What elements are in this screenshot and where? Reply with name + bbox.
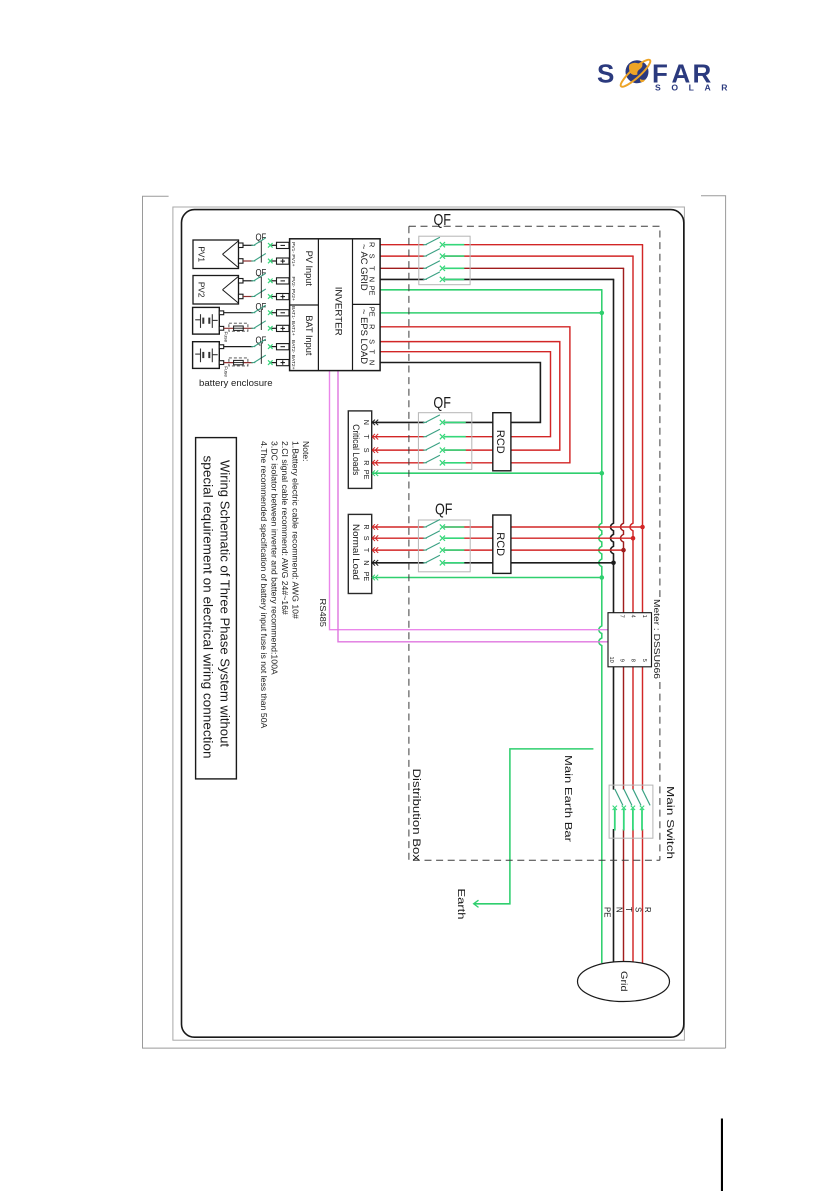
fuse F2 bbox=[234, 360, 244, 364]
wire main earth bar branch bbox=[475, 749, 594, 904]
PV panel PV2 bbox=[193, 276, 239, 305]
svg-text:8: 8 bbox=[630, 659, 636, 662]
load box Critical Loads bbox=[348, 411, 371, 489]
wire AC GRID S phase bbox=[380, 255, 424, 257]
svg-text:PV2- PV2+: PV2- PV2+ bbox=[290, 277, 296, 301]
normal load arrows bbox=[372, 524, 375, 530]
svg-text:1.Battery electric cable recom: 1.Battery electric cable recommend: AWG … bbox=[291, 441, 301, 619]
wire normal load PE bbox=[372, 577, 602, 579]
svg-text:5: 5 bbox=[641, 659, 647, 662]
svg-text:RCD: RCD bbox=[494, 532, 506, 556]
svg-text:PV1: PV1 bbox=[197, 246, 207, 262]
svg-text:Earth: Earth bbox=[455, 889, 467, 920]
battery B1 terminal stubs bbox=[219, 311, 223, 315]
svg-text:PE: PE bbox=[368, 286, 377, 296]
wire critical loads R bbox=[372, 462, 425, 464]
main switch box bbox=[609, 785, 653, 838]
battery B2 terminal stubs bbox=[219, 345, 223, 349]
node normal PE junction bbox=[600, 575, 605, 580]
svg-text:BAT1- BAT1+: BAT1- BAT1+ bbox=[290, 306, 296, 336]
wire PV1 negative bbox=[243, 260, 253, 262]
svg-text:Meter : DSSU666: Meter : DSSU666 bbox=[652, 599, 661, 680]
svg-text:QF: QF bbox=[435, 501, 453, 518]
svg-text:R: R bbox=[368, 324, 377, 329]
wire normal load T bbox=[372, 549, 425, 551]
wire PV2 negative bbox=[243, 296, 253, 298]
svg-text:S: S bbox=[633, 907, 642, 912]
node EPS PE junction bbox=[600, 311, 605, 316]
earth arrow bbox=[474, 900, 479, 907]
svg-text:PE: PE bbox=[362, 572, 371, 582]
PV2 terminal stubs bbox=[239, 279, 244, 284]
svg-text:Critical Loads: Critical Loads bbox=[351, 424, 361, 475]
distribution box dashed enclosure bbox=[409, 226, 660, 597]
battery B1 bbox=[193, 307, 220, 334]
svg-text:N: N bbox=[362, 560, 371, 565]
wire battery B1 negative bbox=[224, 327, 253, 329]
wire battery B2 positive bbox=[224, 346, 253, 348]
main switch pole N bbox=[615, 789, 623, 805]
fuse F2 enclosure bbox=[229, 358, 248, 366]
svg-text:PE: PE bbox=[362, 470, 371, 480]
inverter PV1 minus terminal bbox=[277, 242, 290, 248]
svg-text:Main Switch: Main Switch bbox=[664, 786, 676, 859]
svg-text:Fuse: Fuse bbox=[223, 332, 229, 343]
svg-text:S: S bbox=[368, 339, 377, 344]
svg-text:N: N bbox=[614, 907, 623, 913]
battery B2 bbox=[193, 342, 220, 369]
svg-text:SOLAR: SOLAR bbox=[655, 83, 738, 93]
wire AC GRID PE earth bus bbox=[380, 289, 602, 291]
svg-text:special requirement on electri: special requirement on electrical wiring… bbox=[201, 456, 215, 759]
wire normal load R bbox=[372, 526, 425, 528]
caption box bbox=[196, 438, 237, 779]
wire AC GRID R phase bbox=[380, 244, 424, 246]
svg-text:Grid: Grid bbox=[618, 971, 629, 992]
inner gray frame bbox=[173, 207, 685, 1040]
svg-text:PV Input: PV Input bbox=[304, 251, 314, 287]
wire battery B2 negative bbox=[224, 362, 253, 364]
wire PV2 positive bbox=[243, 280, 253, 282]
svg-text:9: 9 bbox=[618, 659, 624, 662]
svg-text:R: R bbox=[643, 907, 652, 913]
node normal S junction bbox=[631, 536, 636, 541]
svg-text:2.CI signal cable recommend: A: 2.CI signal cable recommend: AWG 24#~16# bbox=[280, 441, 290, 615]
critical loads arrows bbox=[372, 420, 375, 426]
node normal R junction bbox=[640, 525, 645, 530]
main switch pole R bbox=[642, 789, 650, 805]
svg-text:N: N bbox=[368, 277, 377, 282]
node critical PE junction bbox=[600, 471, 605, 476]
svg-text:R: R bbox=[362, 524, 371, 529]
wire RS485 A line bbox=[330, 371, 609, 630]
svg-text:T: T bbox=[362, 435, 371, 440]
wire EPS LOAD S phase bbox=[380, 342, 560, 451]
inverter PV2 minus terminal bbox=[277, 278, 290, 284]
wire critical loads S bbox=[372, 449, 425, 451]
svg-text:battery enclosure: battery enclosure bbox=[199, 378, 273, 389]
PV1 terminal stubs bbox=[239, 243, 244, 248]
svg-text:QF: QF bbox=[433, 395, 451, 412]
main switch pole S bbox=[633, 789, 641, 805]
svg-text:T: T bbox=[624, 907, 633, 912]
wire EPS LOAD R phase bbox=[380, 327, 570, 463]
wire normal load S bbox=[372, 537, 425, 539]
svg-text:RS485: RS485 bbox=[318, 599, 327, 628]
rounded border of schematic bbox=[182, 210, 684, 1038]
RCD normal load bbox=[493, 515, 511, 573]
wire EPS LOAD N neutral bbox=[380, 363, 540, 423]
svg-text:INVERTER: INVERTER bbox=[333, 287, 343, 336]
svg-text:N: N bbox=[362, 420, 371, 425]
svg-text:QF: QF bbox=[434, 212, 452, 229]
wire normal load N bbox=[372, 562, 425, 564]
svg-text:Wiring Schematic of Three Phas: Wiring Schematic of Three Phase System w… bbox=[218, 460, 232, 748]
wire AC GRID T phase bbox=[380, 267, 424, 269]
svg-text:R: R bbox=[362, 460, 371, 465]
wire RS485 B line bbox=[338, 371, 608, 642]
svg-text:RCD: RCD bbox=[494, 430, 506, 454]
PV panel PV1 bbox=[193, 240, 239, 269]
svg-text:BAT2- BAT2+: BAT2- BAT2+ bbox=[290, 340, 296, 370]
main switch pole T bbox=[624, 789, 632, 805]
inverter BAT2 plus terminal bbox=[277, 360, 290, 366]
fuse F1 enclosure bbox=[229, 323, 248, 331]
svg-text:S: S bbox=[362, 536, 371, 541]
svg-text:PV2: PV2 bbox=[197, 282, 207, 298]
svg-text:~ EPS LOAD: ~ EPS LOAD bbox=[359, 309, 370, 364]
svg-text:7: 7 bbox=[618, 615, 624, 618]
inverter PV2 plus terminal bbox=[277, 294, 290, 300]
outer gray frame bbox=[143, 196, 726, 1048]
svg-text:T: T bbox=[362, 548, 371, 553]
svg-text:S: S bbox=[362, 448, 371, 453]
wire critical loads T bbox=[372, 436, 425, 438]
wire PV1 positive bbox=[243, 244, 253, 246]
svg-text:1: 1 bbox=[641, 615, 647, 618]
svg-text:Note:: Note: bbox=[301, 441, 311, 462]
inverter U1 box bbox=[290, 239, 381, 371]
inverter BAT1 minus terminal bbox=[277, 310, 290, 316]
svg-text:R: R bbox=[368, 242, 377, 247]
svg-text:PE: PE bbox=[368, 307, 377, 317]
svg-text:Normal Load: Normal Load bbox=[351, 524, 361, 580]
SOFAR SOLAR logo ring bbox=[618, 57, 653, 90]
inverter BAT2 minus terminal bbox=[277, 344, 290, 350]
svg-text:Distribution Box: Distribution Box bbox=[410, 769, 422, 862]
svg-text:BAT Input: BAT Input bbox=[304, 315, 314, 355]
svg-text:Fuse: Fuse bbox=[223, 366, 229, 377]
wire critical loads N bbox=[372, 421, 425, 423]
RCD critical loads bbox=[493, 413, 511, 471]
svg-text:PV1- PV1+: PV1- PV1+ bbox=[290, 242, 296, 266]
svg-text:4.The recommended specificatio: 4.The recommended specification of batte… bbox=[259, 441, 269, 729]
wire EPS LOAD PE bbox=[380, 312, 602, 314]
grid ellipse bbox=[578, 962, 670, 1002]
fuse F1 bbox=[234, 326, 244, 330]
svg-text:3.DC isolator between inverter: 3.DC isolator between inverter and batte… bbox=[270, 441, 280, 675]
page margin bar bbox=[721, 1119, 723, 1191]
svg-text:S: S bbox=[368, 254, 377, 259]
wire AC GRID N neutral bbox=[380, 278, 424, 280]
inverter PV1 plus terminal bbox=[277, 258, 290, 264]
svg-text:PE: PE bbox=[603, 907, 612, 917]
svg-text:4: 4 bbox=[630, 615, 636, 618]
node normal N junction bbox=[611, 561, 616, 566]
svg-text:N: N bbox=[368, 360, 377, 365]
meter DSSU666 box bbox=[608, 613, 652, 667]
svg-text:S: S bbox=[597, 59, 614, 89]
load box Normal Load bbox=[348, 514, 371, 593]
wire battery B1 positive bbox=[224, 312, 253, 314]
svg-text:Main Earth Bar: Main Earth Bar bbox=[562, 755, 574, 843]
wire critical loads PE bbox=[372, 472, 602, 474]
SOFAR SOLAR logo globe bbox=[626, 60, 649, 83]
node normal T junction bbox=[621, 548, 626, 553]
svg-text:10: 10 bbox=[608, 657, 614, 663]
inverter BAT1 plus terminal bbox=[277, 325, 290, 331]
svg-text:T: T bbox=[368, 349, 377, 354]
svg-text:T: T bbox=[368, 266, 377, 271]
wire EPS LOAD T phase bbox=[380, 352, 550, 437]
